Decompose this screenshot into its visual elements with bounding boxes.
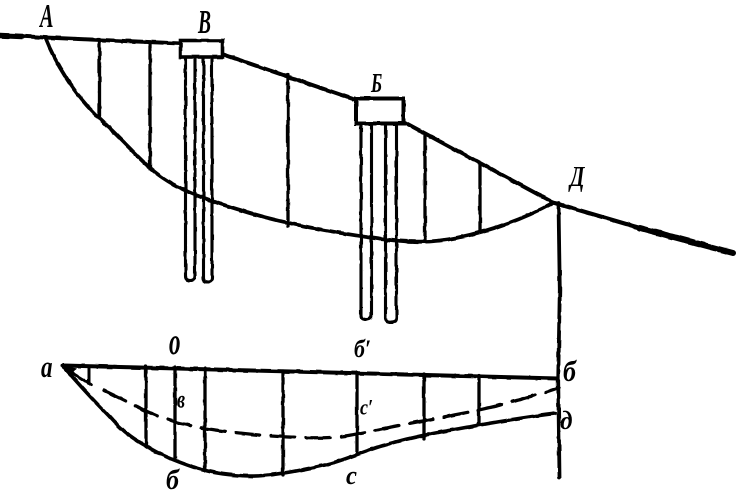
svg-text:с′: с′: [360, 396, 373, 420]
svg-text:б: б: [563, 355, 577, 388]
svg-text:б′: б′: [354, 335, 371, 363]
svg-text:В: В: [197, 3, 211, 41]
svg-text:А: А: [39, 0, 54, 36]
svg-text:с: с: [346, 460, 357, 490]
svg-text:в: в: [177, 384, 185, 413]
svg-text:о: о: [169, 320, 180, 362]
svg-text:б: б: [166, 463, 180, 493]
svg-text:Б: Б: [370, 67, 382, 98]
svg-text:а: а: [41, 350, 52, 384]
svg-text:Д: Д: [568, 162, 585, 193]
svg-text:д: д: [560, 406, 573, 436]
